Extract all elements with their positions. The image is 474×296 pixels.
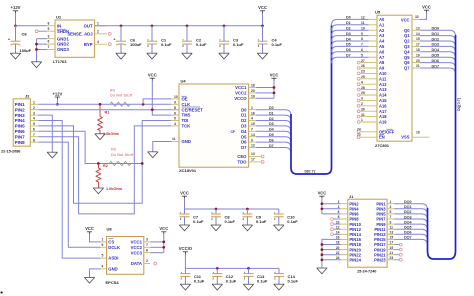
svg-text:8: 8 xyxy=(146,248,148,252)
ground under C3 xyxy=(219,53,229,59)
ground under C1 xyxy=(147,53,157,59)
svg-text:A12: A12 xyxy=(379,82,387,87)
svg-text:U8: U8 xyxy=(107,227,113,232)
svg-text:A14: A14 xyxy=(379,93,387,98)
connector J2 22-15-2086 xyxy=(1,94,30,154)
wires J1 DQ0-DQ7 to bus xyxy=(395,204,428,246)
U1 left pin numbers xyxy=(48,21,50,49)
svg-text:0.1uF: 0.1uF xyxy=(225,219,236,224)
wire VCC to VCC1 VCC2 VCCO xyxy=(256,81,274,99)
svg-text:U4: U4 xyxy=(181,79,187,84)
svg-text:D2: D2 xyxy=(346,27,351,31)
capacitor C8 xyxy=(8,26,32,53)
svg-text:A10: A10 xyxy=(379,71,387,76)
svg-text:D7: D7 xyxy=(346,54,351,58)
junction at C1 xyxy=(151,24,154,27)
svg-text:Q1: Q1 xyxy=(404,33,410,38)
svg-text:Q2: Q2 xyxy=(404,39,410,44)
svg-text:VCC: VCC xyxy=(422,5,431,10)
svg-text:A3: A3 xyxy=(379,33,385,38)
svg-text:PIN5: PIN5 xyxy=(15,124,26,129)
svg-text:GND: GND xyxy=(108,267,117,272)
capacitor C6 xyxy=(114,26,143,53)
svg-text:2: 2 xyxy=(33,106,35,110)
power symbol VCC above U4 right xyxy=(270,73,279,81)
power symbol VCC top xyxy=(258,5,267,13)
svg-text:13: 13 xyxy=(416,26,420,30)
wire +12V rail to U1 IN xyxy=(16,25,47,27)
capacitor C14 xyxy=(274,268,299,284)
svg-text:8: 8 xyxy=(48,21,50,25)
wire J2 pin8 to DCLK xyxy=(38,142,100,247)
U1 right pin numbers xyxy=(97,21,99,43)
svg-text:VCC1: VCC1 xyxy=(235,85,247,90)
junction J1 pin4 xyxy=(321,207,324,210)
flash U8 EPCS4 xyxy=(106,227,144,286)
wire VCCIO cap rail xyxy=(185,254,279,268)
svg-text:15-24-7240: 15-24-7240 xyxy=(357,270,376,274)
svg-text:XC18V01: XC18V01 xyxy=(179,168,197,173)
U8 right pin numbers xyxy=(146,238,148,264)
svg-text:IN: IN xyxy=(57,23,61,28)
svg-text:TDO: TDO xyxy=(238,160,248,165)
svg-text:U1: U1 xyxy=(56,14,62,19)
svg-text:0.1uF: 0.1uF xyxy=(226,278,237,283)
ground at J2 pin3 xyxy=(47,152,57,158)
svg-text:+12V: +12V xyxy=(52,91,62,96)
svg-text:7: 7 xyxy=(146,243,148,247)
svg-text:2: 2 xyxy=(146,259,148,263)
svg-text:5: 5 xyxy=(33,122,35,126)
capacitor C3 xyxy=(219,26,244,53)
wire J2 pin7 to TCK net xyxy=(38,126,171,214)
U8 left pin numbers xyxy=(102,238,104,269)
svg-text:20: 20 xyxy=(251,89,255,93)
ground under U1 xyxy=(31,62,41,68)
svg-text:VCC2: VCC2 xyxy=(131,245,143,250)
svg-text:PIN6: PIN6 xyxy=(15,129,26,134)
power symbol VCC at U8 right xyxy=(159,226,168,234)
wires U4 D0-D7 to bus xyxy=(256,110,291,154)
svg-text:14: 14 xyxy=(251,133,255,137)
svg-text:A11: A11 xyxy=(379,76,387,81)
svg-text:7: 7 xyxy=(33,133,35,137)
svg-text:PIN8: PIN8 xyxy=(15,140,26,145)
voltage regulator U1 LT1763 xyxy=(53,14,95,64)
svg-text:1: 1 xyxy=(102,238,104,242)
svg-text:0.1uF: 0.1uF xyxy=(287,219,298,224)
capacitor C10 xyxy=(274,209,299,225)
svg-text:D2: D2 xyxy=(241,118,247,123)
svg-text:Q6: Q6 xyxy=(404,60,410,65)
svg-text:A7: A7 xyxy=(379,55,385,60)
ground at J1 xyxy=(317,268,327,274)
svg-text:Q4: Q4 xyxy=(404,49,410,54)
svg-text:18: 18 xyxy=(251,84,255,88)
svg-text:GND3: GND3 xyxy=(57,47,69,52)
U4 GND wire to ground xyxy=(153,142,171,152)
svg-text:0.1uF: 0.1uF xyxy=(288,278,299,283)
wire VCC output rail xyxy=(95,25,263,27)
svg-text:A2: A2 xyxy=(379,28,385,33)
svg-text:SENSE_ADJ: SENSE_ADJ xyxy=(67,32,93,37)
wire VCC to U8 VCC pins xyxy=(150,234,164,252)
svg-text:Q3: Q3 xyxy=(404,44,410,49)
svg-text:D6: D6 xyxy=(346,48,351,52)
svg-text:0.1uF: 0.1uF xyxy=(257,278,268,283)
DQ0-DQ7 net labels at U5 xyxy=(432,27,441,69)
svg-text:R1: R1 xyxy=(105,111,110,115)
EPROM U5 27C801 xyxy=(375,10,412,148)
U1 ground pins chain wire xyxy=(37,39,47,62)
svg-text:Q0: Q0 xyxy=(404,28,410,33)
svg-text:1: 1 xyxy=(390,200,392,204)
junction at C8 xyxy=(215,208,218,211)
resistor R4 Do Not Stuff xyxy=(110,89,133,107)
svg-text:A8: A8 xyxy=(379,60,385,65)
svg-text:A5: A5 xyxy=(379,44,385,49)
svg-text:TDI: TDI xyxy=(182,118,189,123)
resistor R3 Do Not Stuff xyxy=(109,148,134,166)
svg-text:GND2: GND2 xyxy=(57,42,69,47)
svg-text:A17: A17 xyxy=(379,109,387,114)
svg-text:A13: A13 xyxy=(379,87,387,92)
page corner mark xyxy=(1,292,3,294)
svg-text:LT1763: LT1763 xyxy=(53,59,67,64)
svg-text:PIN2: PIN2 xyxy=(15,107,26,112)
ground under C12 xyxy=(212,284,222,290)
ground under R1 xyxy=(95,134,105,140)
svg-text:D1: D1 xyxy=(241,113,247,118)
svg-text:VCC1: VCC1 xyxy=(131,240,143,245)
svg-text:D0: D0 xyxy=(346,16,351,20)
svg-text:19: 19 xyxy=(416,53,420,57)
U4 right pin stubs top xyxy=(249,88,256,99)
svg-text:15: 15 xyxy=(390,236,394,240)
wire VCC to J1 pins 2 4 6 xyxy=(322,199,341,214)
svg-text:8: 8 xyxy=(33,138,35,142)
svg-text:VCCIO: VCCIO xyxy=(179,246,193,251)
svg-text:3: 3 xyxy=(146,238,148,242)
svg-text:6: 6 xyxy=(48,40,50,44)
svg-text:R3: R3 xyxy=(111,148,116,152)
svg-text:+12V: +12V xyxy=(11,5,21,10)
wire U5 VCC xyxy=(420,13,427,20)
U8 left pin stubs xyxy=(100,242,106,269)
svg-text:2: 2 xyxy=(97,29,99,33)
svg-text:13: 13 xyxy=(390,231,394,235)
svg-text:1.0kOhm: 1.0kOhm xyxy=(103,132,120,136)
junction at C9 xyxy=(246,208,249,211)
wire U8 GND to ground xyxy=(90,269,101,277)
svg-text:3: 3 xyxy=(33,111,35,115)
svg-text:0.1uF: 0.1uF xyxy=(233,42,244,47)
junction VCC1 xyxy=(273,86,276,89)
no-connect pin 2 SENSE_ADJ xyxy=(108,32,111,35)
wire +12V to rail xyxy=(15,13,17,25)
wire VCC drop xyxy=(262,13,264,25)
connector J1 15-24-7240 xyxy=(348,194,387,274)
svg-text:4: 4 xyxy=(33,117,35,121)
svg-text:VCC: VCC xyxy=(258,5,267,10)
svg-text:VCC: VCC xyxy=(180,191,189,196)
svg-text:VCCO: VCCO xyxy=(234,96,247,101)
U4 data net labels xyxy=(269,106,275,148)
svg-text:J1: J1 xyxy=(349,194,354,199)
svg-text:D[0:7]: D[0:7] xyxy=(305,170,315,174)
svg-text:7: 7 xyxy=(48,45,50,49)
svg-text:D6: D6 xyxy=(241,140,247,145)
power symbol +12V at J2 xyxy=(52,91,62,99)
svg-text:21: 21 xyxy=(416,64,420,68)
svg-text:5: 5 xyxy=(48,27,50,31)
svg-text:9: 9 xyxy=(251,138,253,142)
junctions J1 ground pins xyxy=(321,243,324,261)
power symbol VCC at U5 xyxy=(422,5,431,13)
svg-text:CLK: CLK xyxy=(182,102,192,107)
svg-text:21: 21 xyxy=(390,251,394,255)
junction at C6 xyxy=(120,24,123,27)
svg-text:VCC: VCC xyxy=(317,191,326,196)
svg-text:VCC: VCC xyxy=(401,17,410,22)
svg-text:CE/RESET: CE/RESET xyxy=(182,107,204,112)
junction R1 xyxy=(99,103,102,106)
svg-text:A1: A1 xyxy=(379,22,385,27)
svg-text:VCC2: VCC2 xyxy=(235,91,247,96)
svg-text:6: 6 xyxy=(102,243,104,247)
svg-text:D1: D1 xyxy=(346,21,351,25)
no-connect pin 4 BYP xyxy=(108,43,111,46)
junction at C4 xyxy=(261,24,264,27)
svg-text:5: 5 xyxy=(102,254,104,258)
bus J1 DQ[0:7] xyxy=(428,208,447,259)
capacitor C2 xyxy=(182,26,207,53)
junction GND3 xyxy=(35,48,38,51)
svg-text:0.1uF: 0.1uF xyxy=(194,278,205,283)
junction J1 pin2 xyxy=(321,202,324,205)
svg-text:Q5: Q5 xyxy=(404,55,410,60)
svg-text:11: 11 xyxy=(390,225,394,229)
capacitor C1 xyxy=(147,26,172,53)
svg-text:7: 7 xyxy=(251,128,253,132)
svg-text:OE/OFF: OE/OFF xyxy=(379,129,395,134)
power symbol VCC at J1 xyxy=(317,191,326,199)
svg-text:OE: OE xyxy=(182,97,188,102)
junction U8 VCC1 xyxy=(162,241,165,244)
svg-text:20: 20 xyxy=(416,59,420,63)
svg-text:A19: A19 xyxy=(379,120,387,125)
svg-text:0.1uF: 0.1uF xyxy=(161,42,172,47)
svg-text:VCC: VCC xyxy=(159,226,168,231)
capacitor C4 xyxy=(258,26,283,53)
svg-text:PIN23: PIN23 xyxy=(374,258,386,263)
J1 right pin numbers xyxy=(390,200,394,260)
svg-text:16: 16 xyxy=(416,130,420,134)
svg-text:EN: EN xyxy=(379,135,385,140)
J1 left pin stubs xyxy=(341,204,348,260)
svg-text:DCLK: DCLK xyxy=(108,245,121,250)
U4 right pin numbers top xyxy=(251,84,255,99)
DQ net labels at J1 xyxy=(404,200,413,240)
U5 VSS pin stub xyxy=(412,130,430,137)
svg-text:Do Not Stuff: Do Not Stuff xyxy=(110,94,133,98)
U4 left pin numbers xyxy=(172,95,178,141)
svg-text:3: 3 xyxy=(390,205,392,209)
svg-text:R2: R2 xyxy=(103,164,108,168)
svg-text:D5: D5 xyxy=(241,134,247,139)
junction at C13 xyxy=(247,267,250,270)
ground under C7 xyxy=(179,225,189,231)
svg-text:4: 4 xyxy=(102,265,104,269)
svg-text:A16: A16 xyxy=(379,103,387,108)
svg-text:1.0kOhm: 1.0kOhm xyxy=(106,187,123,191)
svg-text:18: 18 xyxy=(416,48,420,52)
A0-A7 net labels xyxy=(346,16,352,58)
svg-text:A0: A0 xyxy=(379,17,385,22)
ground under C11 xyxy=(180,284,190,290)
svg-text:D5: D5 xyxy=(346,43,351,47)
J1 left pin numbers xyxy=(336,200,340,260)
wire J2 pin3 to ground xyxy=(38,115,52,152)
svg-text:A9: A9 xyxy=(379,66,385,71)
svg-text:1: 1 xyxy=(97,21,99,25)
svg-text:CF: CF xyxy=(230,130,235,134)
power symbol +12V xyxy=(11,5,21,13)
svg-text:+: + xyxy=(8,38,10,42)
svg-text:D3: D3 xyxy=(241,124,247,129)
svg-text:16: 16 xyxy=(251,111,255,115)
svg-text:+: + xyxy=(114,38,116,42)
svg-text:A6: A6 xyxy=(379,49,385,54)
svg-text:5: 5 xyxy=(174,117,176,121)
wire J2 pin4 to ASDI xyxy=(38,121,100,259)
ground under C10 xyxy=(274,225,284,231)
U4 CEO TDO stubs xyxy=(249,157,261,162)
U5 VCC pin stub xyxy=(412,15,420,20)
svg-text:0.1uF: 0.1uF xyxy=(193,219,204,224)
svg-text:8: 8 xyxy=(174,106,176,110)
resistor R2 xyxy=(96,164,123,192)
wire J1 ground pins xyxy=(322,239,341,267)
capacitor C12 xyxy=(212,268,237,284)
node junction at C8 xyxy=(14,24,17,27)
no-connects A8-A19 xyxy=(357,61,377,123)
svg-text:D3: D3 xyxy=(346,32,351,36)
svg-text:EPCS4: EPCS4 xyxy=(106,280,120,285)
junction +12V J2 pin1 xyxy=(56,103,59,106)
ground under C13 xyxy=(243,284,253,290)
capacitor C7 xyxy=(180,209,205,225)
U5 data pin stubs xyxy=(412,30,420,68)
no-connects J1 left xyxy=(331,218,341,236)
U5 address pin stubs xyxy=(369,19,378,57)
capacitor C11 xyxy=(180,268,205,284)
wire branch to OE xyxy=(143,99,171,104)
wire J2 pin1 CLK net xyxy=(38,103,171,105)
svg-text:CEO: CEO xyxy=(237,154,247,159)
resistor R1 xyxy=(98,104,120,136)
wire J2 pin5 to TDI net xyxy=(38,121,171,204)
wires DQ0-DQ7 to right bus xyxy=(420,30,456,74)
wire J2 pin6 to R2 R3 net xyxy=(38,131,142,163)
no-connect CEO xyxy=(261,155,264,158)
svg-text:3: 3 xyxy=(48,34,50,38)
svg-text:VCC: VCC xyxy=(148,73,157,78)
U5 address pin numbers xyxy=(357,16,365,137)
svg-text:7: 7 xyxy=(390,215,392,219)
svg-text:A18: A18 xyxy=(379,114,387,119)
svg-text:12: 12 xyxy=(251,144,255,148)
svg-text:A15: A15 xyxy=(379,98,387,103)
svg-text:13: 13 xyxy=(251,152,255,156)
svg-text:19: 19 xyxy=(390,246,394,250)
svg-text:15: 15 xyxy=(251,122,255,126)
junction R3 TDI xyxy=(141,162,144,165)
J2 pin stubs xyxy=(30,104,38,142)
U5 data pin numbers xyxy=(416,26,420,68)
capacitor C13 xyxy=(244,268,269,284)
J2 pin numbers xyxy=(33,101,35,143)
svg-text:CS: CS xyxy=(108,240,114,245)
svg-text:TCK: TCK xyxy=(182,124,192,129)
svg-text:17: 17 xyxy=(416,43,420,47)
svg-text:C8: C8 xyxy=(22,32,28,37)
no-connect OE/OFF xyxy=(357,130,377,133)
svg-text:11: 11 xyxy=(172,137,176,141)
svg-text:ASDI: ASDI xyxy=(108,256,118,261)
no-connect U8 DATA xyxy=(154,262,157,265)
ground under U4 xyxy=(148,152,158,158)
power symbol VCC above U4 left xyxy=(148,73,157,81)
ground under C14 xyxy=(274,284,284,290)
svg-text:PIN1: PIN1 xyxy=(15,102,26,107)
svg-text:DATA: DATA xyxy=(131,261,142,266)
svg-text:0.1uF: 0.1uF xyxy=(272,42,283,47)
svg-text:17: 17 xyxy=(251,158,255,162)
U4 left pin stubs xyxy=(171,99,179,142)
svg-text:32: 32 xyxy=(415,15,419,19)
power symbol VCC at U8 CS xyxy=(85,226,94,234)
junction R2 xyxy=(97,162,100,165)
svg-text:J2: J2 xyxy=(25,94,30,99)
power symbol VCC at C7 rail xyxy=(180,191,189,199)
svg-text:19: 19 xyxy=(251,95,255,99)
no-connect circle SHDN xyxy=(35,30,38,33)
wire VCC to CS xyxy=(90,234,101,242)
junction U8 VCC2 xyxy=(162,246,165,249)
U1 right pin stubs xyxy=(95,26,107,44)
svg-text:1: 1 xyxy=(251,106,253,110)
U4 CEO TDO numbers xyxy=(251,152,255,161)
bus DQ[0:7] right edge xyxy=(446,35,456,259)
ground under C9 xyxy=(242,225,252,231)
svg-text:Q7: Q7 xyxy=(404,66,410,71)
svg-text:PIN24: PIN24 xyxy=(349,258,361,263)
svg-text:4: 4 xyxy=(251,117,253,121)
ground under C8 xyxy=(211,225,221,231)
svg-text:GND1: GND1 xyxy=(57,36,69,41)
svg-text:6: 6 xyxy=(174,111,176,115)
svg-text:9: 9 xyxy=(390,220,392,224)
svg-text:PIN7: PIN7 xyxy=(15,134,26,139)
svg-text:17: 17 xyxy=(390,241,394,245)
svg-text:D4: D4 xyxy=(241,129,247,134)
svg-text:VCC: VCC xyxy=(85,226,94,231)
wires A0-A7 from bus xyxy=(332,19,369,63)
svg-text:10: 10 xyxy=(174,95,178,99)
junction VCC CE/RESET xyxy=(151,108,154,111)
U4 data pin stubs xyxy=(249,110,256,148)
